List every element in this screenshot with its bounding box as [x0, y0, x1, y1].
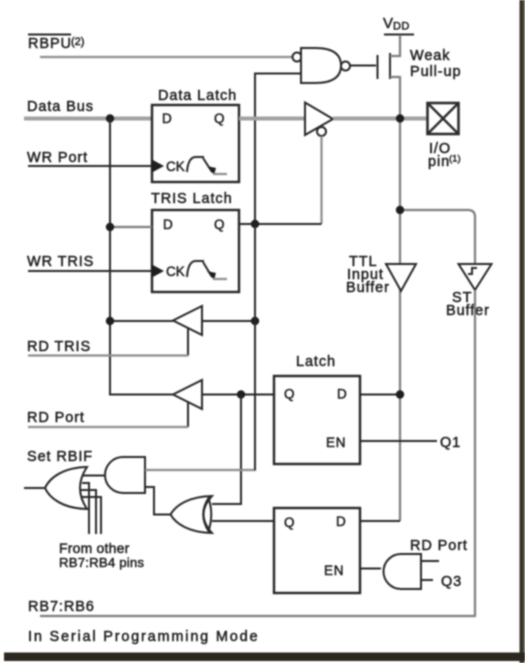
wire latch U9 Q down to XOR	[212, 395, 241, 505]
svg-text:WR TRIS: WR TRIS	[27, 254, 94, 270]
wire latch D to pin line	[360, 394, 400, 396]
latch U10 old value latch box	[274, 508, 360, 593]
latch U2 CK arrow	[151, 159, 164, 173]
wire RD Port enable	[28, 402, 188, 427]
transistor Q1 weak pull-up gate bar	[377, 55, 379, 79]
svg-text:Data Latch: Data Latch	[158, 88, 237, 104]
svg-text:D: D	[163, 217, 173, 232]
wire WR TRIS	[28, 270, 152, 272]
wire bus to TRIS D	[110, 226, 152, 228]
svg-text:RBPU: RBPU	[28, 36, 72, 52]
wire latch U10 EN input	[360, 568, 381, 570]
svg-text:Q: Q	[284, 387, 295, 402]
svg-text:Q: Q	[214, 111, 225, 126]
svg-text:D: D	[337, 387, 347, 402]
wire RD TRIS buffer output to bus	[110, 320, 173, 322]
wire TRIS Q to NAND input 2	[255, 74, 301, 225]
svg-text:(1): (1)	[449, 154, 461, 165]
svg-text:RD Port: RD Port	[27, 410, 85, 426]
wire data bus horizontal	[24, 117, 152, 121]
svg-text:WR Port: WR Port	[27, 150, 88, 166]
wire pin node vertical	[399, 119, 401, 522]
svg-text:V: V	[383, 15, 393, 32]
svg-text:D: D	[162, 111, 172, 126]
transistor Q1 channel bar	[389, 53, 391, 79]
wire TRIS Q output	[239, 223, 322, 225]
wire latch U10 Q to XOR	[212, 520, 274, 522]
NAND gate U1 input bubble	[293, 53, 302, 62]
svg-text:D: D	[336, 514, 346, 529]
svg-text:RB7:RB4 pins: RB7:RB4 pins	[59, 555, 144, 570]
node VDD	[383, 15, 414, 35]
svg-text:CK: CK	[166, 264, 185, 279]
svg-text:From other: From other	[59, 540, 130, 556]
wire pin to ST buffer branch	[400, 210, 475, 264]
wire WR Port	[28, 165, 152, 167]
wire tri-state enable	[320, 136, 322, 224]
svg-text:Set RBIF: Set RBIF	[27, 449, 93, 465]
svg-text:Q1: Q1	[440, 435, 461, 451]
buffer U3 enable bubble	[317, 127, 326, 136]
latch U4 TRIS Latch box	[152, 210, 239, 292]
svg-text:WeakPull-up: WeakPull-up	[410, 48, 461, 80]
latch U4 clock waveform	[187, 261, 227, 280]
svg-text:CK: CK	[166, 159, 185, 174]
svg-text:Q3: Q3	[441, 574, 462, 590]
photo border right	[520, 0, 524, 663]
svg-text:RD Port: RD Port	[410, 538, 468, 554]
wire RD TRIS enable	[28, 328, 188, 356]
buffer U8 ST buffer	[459, 264, 492, 290]
wire latch Q to RD Port buffer input	[202, 394, 274, 396]
svg-text:TRIS Latch: TRIS Latch	[151, 191, 233, 207]
wire buffer output to pin node	[333, 117, 428, 121]
wire RD Port stub	[421, 560, 439, 562]
svg-text:TTLInputBuffer: TTLInputBuffer	[346, 254, 390, 296]
junction ST branch node	[396, 206, 404, 214]
svg-text:Q: Q	[214, 217, 225, 232]
wire other pins input 2	[81, 490, 96, 534]
junction bus RD TRIS node	[106, 317, 114, 325]
wire TRIS net to RD TRIS buffer input	[202, 320, 255, 322]
wire XOR output to AND input	[145, 487, 171, 515]
wire latch U10 D input	[360, 520, 400, 522]
latch U4 CK arrow	[151, 264, 164, 278]
wire TRIS Q to AND input	[145, 469, 256, 471]
buffer U3 tri-state output driver	[305, 103, 333, 136]
latch U2 clock waveform	[187, 157, 227, 175]
svg-text:STBuffer: STBuffer	[446, 290, 490, 319]
junction bus TRIS branch	[106, 223, 114, 231]
wire other pins input 1	[82, 483, 89, 534]
svg-text:(2): (2)	[71, 36, 84, 48]
svg-text:Latch: Latch	[296, 354, 336, 370]
svg-text:pin: pin	[428, 154, 450, 170]
svg-text:EN: EN	[324, 563, 344, 578]
node RBPU label	[28, 35, 84, 53]
svg-text:RD TRIS: RD TRIS	[27, 339, 91, 355]
OR gate U13 Set RBIF	[45, 467, 87, 509]
wire latch EN to Q1	[360, 440, 437, 442]
wire Q3 stub	[421, 579, 433, 581]
svg-text:EN: EN	[326, 435, 346, 450]
junction pin node	[396, 114, 404, 122]
svg-text:Q: Q	[284, 515, 295, 530]
label I/O pin	[428, 141, 461, 170]
junction RD TRIS input node	[251, 317, 259, 325]
AND gate U12 RBIF detect	[105, 457, 145, 493]
NAND gate U1	[301, 48, 341, 83]
junction latch Q node	[237, 390, 245, 398]
NAND gate U1 output bubble	[341, 62, 350, 71]
wire x255 vertical lower	[254, 224, 256, 470]
svg-text:DD: DD	[393, 21, 410, 33]
wire Set RBIF output	[24, 487, 45, 489]
wire data latch Q to output buffer	[239, 117, 305, 121]
junction latch D node	[396, 390, 404, 398]
svg-text:In Serial Programming Mode: In Serial Programming Mode	[28, 629, 259, 645]
wire other pins input 3	[82, 497, 101, 534]
wire AND output to OR	[81, 475, 105, 477]
I/O pin symbol	[428, 103, 459, 134]
wire NAND output to Q1 gate	[349, 65, 376, 67]
photo border bottom	[4, 653, 525, 662]
buffer U7 TTL input buffer	[386, 264, 416, 291]
junction data bus branch	[106, 114, 114, 122]
AND gate U14 RD Port qualifier	[384, 554, 422, 589]
wire VDD to Q1 source	[390, 35, 400, 56]
junction TRIS Q node	[251, 220, 259, 228]
svg-text:RB7:RB6: RB7:RB6	[28, 599, 95, 615]
buffer U5 RD TRIS read buffer	[173, 306, 202, 335]
wire ST buffer output frame	[40, 290, 475, 616]
wire RBPU to NAND input	[40, 56, 293, 58]
wire Q1 drain to pin node	[390, 77, 400, 118]
latch U2 Data Latch box	[152, 105, 239, 182]
latch U9 input latch box	[274, 376, 360, 464]
svg-text:Data Bus: Data Bus	[27, 99, 94, 115]
XOR gate U11	[171, 496, 213, 533]
wire internal bus vertical	[110, 119, 173, 395]
buffer U6 RD Port read buffer	[173, 380, 202, 409]
